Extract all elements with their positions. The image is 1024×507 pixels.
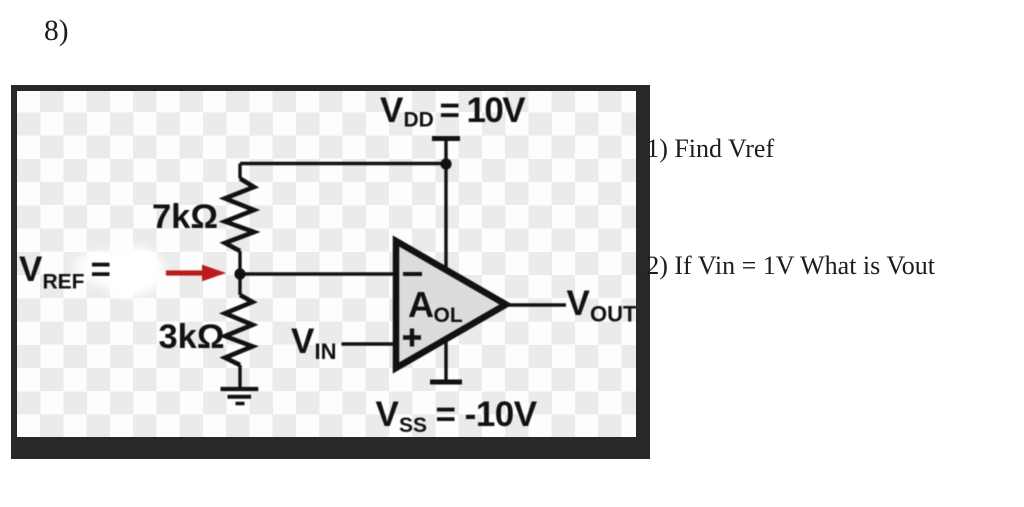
svg-text:OL: OL xyxy=(434,304,463,327)
svg-text:V: V xyxy=(376,395,400,434)
svg-text:OUT: OUT xyxy=(590,301,637,326)
svg-text:A: A xyxy=(408,284,434,325)
svg-text:DD: DD xyxy=(404,109,434,132)
svg-text:= -10V: = -10V xyxy=(436,395,538,434)
svg-text:3kΩ: 3kΩ xyxy=(159,318,225,356)
svg-text:SS: SS xyxy=(399,414,427,437)
svg-text:V: V xyxy=(380,91,404,130)
svg-text:= 10V: = 10V xyxy=(440,91,527,130)
svg-text:IN: IN xyxy=(315,339,337,364)
svg-text:V: V xyxy=(567,284,591,323)
svg-text:V: V xyxy=(19,250,43,289)
svg-text:V: V xyxy=(291,322,315,361)
svg-text:REF: REF xyxy=(43,271,85,294)
svg-text:7kΩ: 7kΩ xyxy=(152,198,218,236)
svg-text:=: = xyxy=(91,250,111,289)
